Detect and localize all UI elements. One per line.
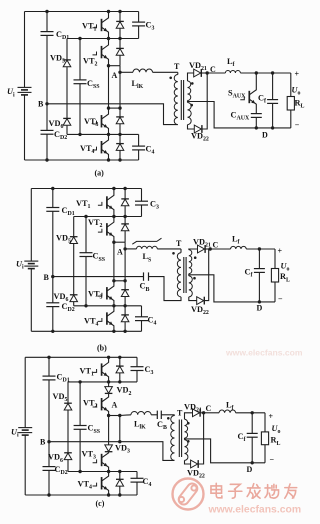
battery Ui (b): [24, 260, 38, 262]
diode D1 (b): [124, 189, 126, 200]
capacitor CSS (b): [80, 252, 93, 254]
node VT3 emitter junction (c): [107, 470, 110, 473]
capacitor Cf (c): [251, 413, 253, 434]
wire clamp rail 2 (a): [67, 38, 139, 40]
diode D4 (b): [124, 306, 126, 315]
svg-text:C3: C3: [146, 21, 155, 32]
svg-text:A: A: [117, 248, 123, 257]
node VT1 collector junction (a): [107, 10, 110, 13]
transistor VT1 (a): [101, 19, 103, 31]
wire VT rail mid (b): [113, 242, 115, 281]
watermark text shao: [265, 484, 279, 498]
svg-text:C3: C3: [145, 365, 154, 376]
inductor LS (b): [137, 246, 158, 249]
capacitor C4 (b): [141, 306, 143, 317]
node CSS bottom (a): [78, 133, 81, 136]
capacitor C3 (c): [136, 357, 138, 366]
svg-text:−: −: [295, 120, 300, 129]
inductor Lf (c): [219, 410, 236, 413]
svg-text:CD1: CD1: [62, 206, 75, 217]
svg-text:(a): (a): [95, 169, 105, 178]
transformer T primary winding (a): [174, 75, 178, 125]
transformer secondary upper winding (c): [185, 419, 188, 438]
wire CD rail (a): [46, 12, 48, 32]
svg-text:+: +: [295, 70, 300, 79]
diode D3 (b): [124, 281, 126, 290]
svg-text:VT4: VT4: [84, 317, 99, 328]
svg-text:VD5: VD5: [53, 392, 68, 403]
transistor SAUX (a): [248, 91, 250, 103]
transistor VT4 (a): [101, 141, 103, 153]
node B (a): [45, 102, 48, 105]
diode D1 (a): [119, 12, 121, 22]
transistor VT3 (c): [101, 454, 103, 466]
capacitor CB (c): [156, 411, 158, 419]
node VT3 collector (b): [112, 279, 115, 282]
wire B to transformer primary (a): [47, 104, 178, 125]
diode VD6 (a): [63, 119, 71, 126]
svg-text:CB: CB: [157, 420, 167, 431]
node D1 cathode junction (b): [123, 187, 126, 190]
diode VD5 (b): [70, 237, 78, 244]
diode VD21 (a): [194, 69, 201, 77]
node bottom-left junction (a): [45, 158, 48, 161]
node CSS bottom (c): [78, 470, 81, 473]
wire clamp-diode rail (c): [67, 382, 69, 403]
svg-text:T: T: [177, 408, 183, 417]
transformer core (c): [178, 420, 180, 458]
wire VT3 collector link (a): [109, 107, 121, 109]
svg-text:CSS: CSS: [93, 252, 106, 263]
svg-text:VT3: VT3: [84, 117, 99, 128]
transformer primary polarity dot (b): [172, 252, 175, 255]
wire VD21 to C (b): [205, 248, 210, 250]
node D4 anode junction (c): [118, 493, 121, 496]
node A (a): [118, 71, 121, 74]
node D3 cathode (b): [123, 279, 126, 282]
wire A link (c): [109, 415, 120, 417]
wire RL branch (c): [264, 413, 266, 432]
node VT3 emitter junction (b): [112, 304, 115, 307]
transformer secondary upper winding (a): [188, 81, 191, 101]
transformer secondary lower polarity dot (a): [190, 104, 193, 107]
inductor Lf (b): [231, 246, 247, 249]
svg-text:D: D: [257, 304, 263, 313]
svg-text:www.elecfans.com: www.elecfans.com: [225, 348, 303, 358]
diode VD5 (a): [63, 60, 71, 67]
wire inductor to primary (a): [153, 71, 178, 73]
svg-text:A: A: [112, 71, 118, 80]
transformer primary polarity dot (a): [169, 77, 172, 80]
inductor LlK (c): [131, 411, 151, 414]
wire VD21 to C (a): [202, 72, 208, 74]
svg-text:(c): (c): [96, 499, 105, 508]
svg-text:Cf: Cf: [258, 94, 267, 105]
wire B to CB (b): [53, 276, 144, 278]
svg-text:CAUX: CAUX: [231, 111, 251, 122]
node D4 anode junction (b): [123, 330, 126, 333]
node CAUX bottom (a): [255, 126, 258, 129]
wire diode rail mid (b): [124, 242, 126, 281]
wire CSS rail (b): [85, 217, 87, 253]
transistor VT3 (b): [106, 287, 108, 299]
svg-text:VD6: VD6: [48, 453, 63, 464]
svg-text:CD2: CD2: [55, 465, 68, 476]
wire battery rail (a): [24, 12, 26, 88]
capacitor CD2 (c): [43, 466, 56, 468]
capacitor CSS (c): [74, 425, 87, 427]
wire bottom DC rail (c): [25, 494, 137, 496]
svg-text:(b): (b): [97, 344, 107, 353]
wire secondary tap segment (c): [184, 438, 186, 440]
wire secondary bottom to VD22 (c): [185, 460, 191, 464]
node D1 cathode junction (c): [118, 356, 121, 359]
svg-text:VT2: VT2: [83, 56, 98, 67]
node B (c): [47, 440, 50, 443]
node SAUX branch top (a): [255, 71, 258, 74]
wire output top rail (a): [240, 72, 290, 74]
capacitor CD1 (c): [43, 375, 56, 377]
node Cf branch top (b): [258, 247, 261, 250]
wire clamp-diode rail (b): [73, 217, 75, 237]
svg-text:VD5: VD5: [56, 234, 71, 245]
wire output top rail (c): [236, 412, 265, 414]
capacitor C4 (a): [138, 134, 140, 146]
svg-text:RL: RL: [271, 436, 281, 447]
inductor LlK (a): [133, 69, 153, 72]
wire secondary top to VD21 (b): [189, 248, 198, 251]
diode VD6 (b): [70, 295, 78, 302]
svg-text:RL: RL: [295, 99, 305, 110]
node top-left junction (b): [51, 187, 54, 190]
svg-text:T: T: [174, 62, 180, 71]
wire VD22 cathode up to C (b): [205, 249, 209, 301]
node D4 rail top junction (c): [118, 470, 121, 473]
watermark text zi: [229, 484, 242, 498]
node D1 anode junction (b): [123, 215, 126, 218]
wire clamp rail 4 (c): [68, 471, 137, 473]
transistor VT3 (a): [101, 115, 103, 127]
transformer secondary lower winding (b): [189, 276, 193, 297]
transistor VT4 (b): [106, 312, 108, 324]
node C (c): [202, 411, 205, 414]
wire battery rail (c): [24, 357, 26, 427]
diode VD21 (b): [198, 245, 205, 253]
wire clamp rail 4 (a): [67, 133, 139, 135]
wire clamp rail 4 (b): [74, 305, 142, 307]
inductor Lf (a): [225, 71, 240, 74]
node D1 anode junction (c): [118, 380, 121, 383]
node A-rail to B line junction (c): [118, 440, 121, 443]
node C (a): [206, 71, 209, 74]
svg-text:Uo: Uo: [272, 424, 281, 435]
battery Ui (c): [18, 427, 32, 429]
svg-text:C4: C4: [143, 477, 152, 488]
wire C to filter inductor (a): [207, 72, 225, 74]
wire secondary tap segment (a): [187, 101, 189, 103]
watermark text fa: [247, 484, 260, 499]
svg-text:−: −: [278, 295, 283, 304]
diode VD6 (c): [64, 453, 72, 460]
node D (a): [271, 126, 274, 129]
svg-text:C: C: [213, 241, 219, 250]
node CSS top (b): [84, 215, 87, 218]
node Cf branch top (a): [271, 71, 274, 74]
resistor RL (b): [271, 269, 278, 283]
transformer T primary winding (b): [177, 253, 181, 297]
svg-text:CSS: CSS: [87, 79, 100, 90]
wire secondary bottom to VD22 (b): [189, 297, 197, 301]
svg-text:VD21: VD21: [189, 61, 207, 72]
capacitor C3 (b): [141, 189, 143, 202]
wire VT2 emitter link (a): [109, 65, 121, 67]
wire A down to B line (c): [119, 416, 121, 442]
svg-text:B: B: [38, 100, 44, 109]
capacitor CD1 (a): [41, 31, 54, 33]
transformer core (b): [183, 257, 185, 293]
node top-left junction (c): [47, 356, 50, 359]
wire RL branch (a): [290, 73, 292, 97]
diode VD22 (b): [197, 297, 204, 305]
svg-text:RL: RL: [280, 272, 290, 283]
svg-text:LS: LS: [143, 252, 153, 263]
svg-text:SAUX: SAUX: [228, 89, 246, 100]
watermark logo pin: [177, 481, 200, 506]
node CSS bottom (b): [84, 304, 87, 307]
svg-text:Uo: Uo: [281, 262, 290, 273]
svg-text:−: −: [270, 455, 275, 464]
capacitor CSS (a): [74, 79, 87, 81]
transformer T primary winding (c): [171, 416, 175, 461]
node top-left junction (a): [45, 10, 48, 13]
node A (b): [123, 247, 126, 250]
resistor RL (c): [261, 432, 268, 445]
svg-text:VT2: VT2: [83, 399, 98, 410]
node VT1 collector junction (b): [112, 187, 115, 190]
capacitor CD2 (b): [46, 302, 59, 304]
wire output top rail (b): [246, 248, 275, 250]
node VT2 emitter (a): [107, 64, 110, 67]
node Cf branch top (c): [251, 411, 254, 414]
transformer secondary lower winding (a): [188, 103, 192, 125]
capacitor CD1 (b): [46, 207, 59, 209]
svg-text:C3: C3: [150, 200, 159, 211]
diode VD21 (c): [193, 409, 200, 417]
transistor VT1 (b): [106, 196, 108, 208]
wire VT2 emitter link (b): [114, 241, 125, 243]
diode D4 (a): [119, 134, 121, 143]
transistor VT4 (c): [101, 477, 103, 489]
svg-text:CB: CB: [140, 282, 150, 293]
wire VD21 to C (c): [200, 412, 203, 414]
wire top DC rail (c): [25, 356, 137, 358]
watermark text dian: [211, 483, 222, 498]
capacitor C4 (c): [136, 472, 138, 479]
wire bottom DC rail (b): [31, 330, 141, 332]
diode VD2 series (c): [108, 382, 110, 387]
svg-text:A: A: [112, 401, 118, 410]
capacitor CB (b): [143, 272, 145, 280]
svg-text:Ui: Ui: [16, 260, 24, 271]
wire inductor to CB (c): [151, 414, 157, 416]
battery Ui (a): [18, 86, 32, 88]
node C (b): [209, 247, 212, 250]
svg-text:+: +: [278, 247, 283, 256]
wire center tap (c): [185, 439, 266, 463]
svg-text:VT1: VT1: [80, 366, 95, 377]
svg-text:VD6: VD6: [49, 119, 64, 130]
node CSS top (a): [78, 37, 81, 40]
wire top DC rail (b): [31, 188, 141, 190]
wire C to filter inductor (b): [210, 248, 230, 250]
node D3 cathode (a): [118, 106, 121, 109]
svg-text:LlK: LlK: [132, 79, 144, 90]
node VT1 collector junction (c): [107, 356, 110, 359]
svg-text:B: B: [40, 438, 46, 447]
svg-text:VD22: VD22: [191, 132, 209, 143]
svg-text:Ui: Ui: [7, 87, 15, 98]
svg-text:VT1: VT1: [82, 22, 97, 33]
diode VD22 (c): [191, 460, 198, 468]
capacitor Cf (a): [272, 73, 274, 100]
wire CSS rail (c): [79, 382, 81, 426]
transistor VT2 (b): [106, 223, 108, 235]
svg-text:D: D: [262, 131, 268, 140]
node B (b): [51, 275, 54, 278]
wire A to saturable inductor (b): [125, 248, 136, 250]
wire CD rail (c): [48, 357, 50, 376]
node D1 anode junction (a): [118, 37, 121, 40]
wire C to filter inductor (c): [204, 412, 220, 414]
svg-text:Ui: Ui: [11, 428, 19, 439]
svg-text:VT1: VT1: [76, 199, 91, 210]
node D3 anode junction (a): [118, 133, 121, 136]
svg-text:Cf: Cf: [245, 268, 254, 279]
wire battery rail (b): [30, 189, 32, 262]
node D (b): [258, 300, 261, 303]
svg-text:VT4: VT4: [78, 480, 93, 491]
watermark text you: [285, 484, 297, 498]
wire bottom DC rail (a): [25, 159, 139, 161]
node VT4 emitter junction (c): [107, 493, 110, 496]
node VT2 emitter (b): [112, 241, 115, 244]
wire diode rail mid (a): [119, 66, 121, 108]
resistor RL (a): [287, 97, 294, 111]
svg-text:Lf: Lf: [227, 57, 236, 68]
node VT3 emitter junction (a): [107, 133, 110, 136]
diode D2 (b): [124, 217, 126, 225]
saturable-core bar over LS (b): [132, 238, 161, 244]
wire VT rail mid (a): [108, 66, 110, 108]
svg-text:+: +: [269, 412, 274, 421]
capacitor CD2 (a): [41, 129, 54, 131]
wire B to transformer primary (c): [49, 442, 175, 461]
wire VD22 cathode up to C (c): [199, 413, 204, 464]
svg-text:VD5: VD5: [50, 54, 65, 65]
svg-text:VT4: VT4: [80, 144, 95, 155]
wire output bottom rail (a): [256, 127, 291, 129]
wire clamp rail 2 (b): [74, 216, 142, 218]
wire RL branch (b): [274, 249, 276, 269]
wire center tap (b): [189, 275, 275, 302]
node VT1 emitter junction (b): [112, 215, 115, 218]
svg-text:C4: C4: [148, 316, 157, 327]
svg-text:VD2: VD2: [117, 386, 132, 397]
capacitor C3 (a): [138, 12, 140, 23]
wire A to leakage inductor (a): [120, 71, 133, 73]
svg-text:LlK: LlK: [134, 420, 146, 431]
svg-text:CD2: CD2: [54, 130, 67, 141]
diode D3 (a): [119, 108, 121, 117]
node D3 anode junction (b): [123, 304, 126, 307]
diode D1 (c): [119, 357, 121, 366]
svg-text:B: B: [44, 273, 50, 282]
svg-text:VD3: VD3: [115, 444, 130, 455]
svg-text:VT3: VT3: [88, 290, 103, 301]
wire secondary top to VD21 (a): [188, 73, 194, 81]
svg-text:C: C: [206, 404, 212, 413]
node D (c): [251, 461, 254, 464]
transformer secondary lower polarity dot (c): [187, 440, 190, 443]
wire center tap (a): [188, 102, 257, 128]
node VT3 collector (a): [107, 106, 110, 109]
diode VD3 series (c): [108, 416, 110, 445]
diode VD22 (a): [194, 125, 201, 133]
svg-text:D: D: [247, 465, 253, 474]
node VT4 emitter junction (b): [112, 330, 115, 333]
wire CB to primary top (c): [161, 414, 174, 416]
svg-text:Uo: Uo: [292, 86, 301, 97]
node VT1 emitter junction (a): [107, 37, 110, 40]
diode VD5 (c): [64, 403, 72, 410]
transformer core (a): [180, 80, 182, 120]
svg-text:CSS: CSS: [88, 424, 101, 435]
diode D2 (a): [119, 39, 121, 49]
node VT4 emitter junction (a): [107, 158, 110, 161]
transistor VT1 (c): [101, 363, 103, 375]
wire CSS rail (a): [79, 39, 81, 80]
transistor VT2 (c): [101, 398, 103, 410]
transformer secondary upper polarity dot (a): [191, 82, 194, 85]
transformer primary polarity dot (c): [167, 417, 170, 420]
svg-text:VT2: VT2: [88, 218, 103, 229]
wire VT3 collector link (b): [114, 280, 125, 282]
wire CD rail (b): [52, 189, 54, 208]
svg-text:T: T: [176, 239, 182, 248]
svg-text:CD2: CD2: [62, 302, 75, 313]
wire CB to primary bottom (b): [149, 277, 182, 301]
node bottom-left junction (c): [47, 493, 50, 496]
diode D4 (c): [119, 472, 121, 480]
transformer secondary lower winding (c): [185, 440, 188, 461]
wire A to leakage inductor (c): [120, 414, 131, 417]
node bottom-left junction (b): [51, 330, 54, 333]
node CSS top (c): [78, 380, 81, 383]
node A (c): [118, 414, 121, 417]
node VT1 emitter junction (c): [107, 380, 110, 383]
transformer secondary upper polarity dot (b): [194, 256, 197, 259]
wire clamp rail 2 (c): [68, 381, 137, 383]
svg-text:VT3: VT3: [82, 450, 97, 461]
transformer secondary upper winding (b): [189, 250, 192, 274]
transformer secondary upper polarity dot (c): [187, 422, 190, 425]
svg-text:C4: C4: [146, 145, 155, 156]
svg-text:Cf: Cf: [238, 432, 247, 443]
svg-text:VD22: VD22: [191, 305, 209, 316]
wire top DC rail (a): [25, 11, 139, 13]
wire secondary top to VD21 (c): [185, 413, 193, 420]
node D1 cathode junction (a): [118, 10, 121, 13]
